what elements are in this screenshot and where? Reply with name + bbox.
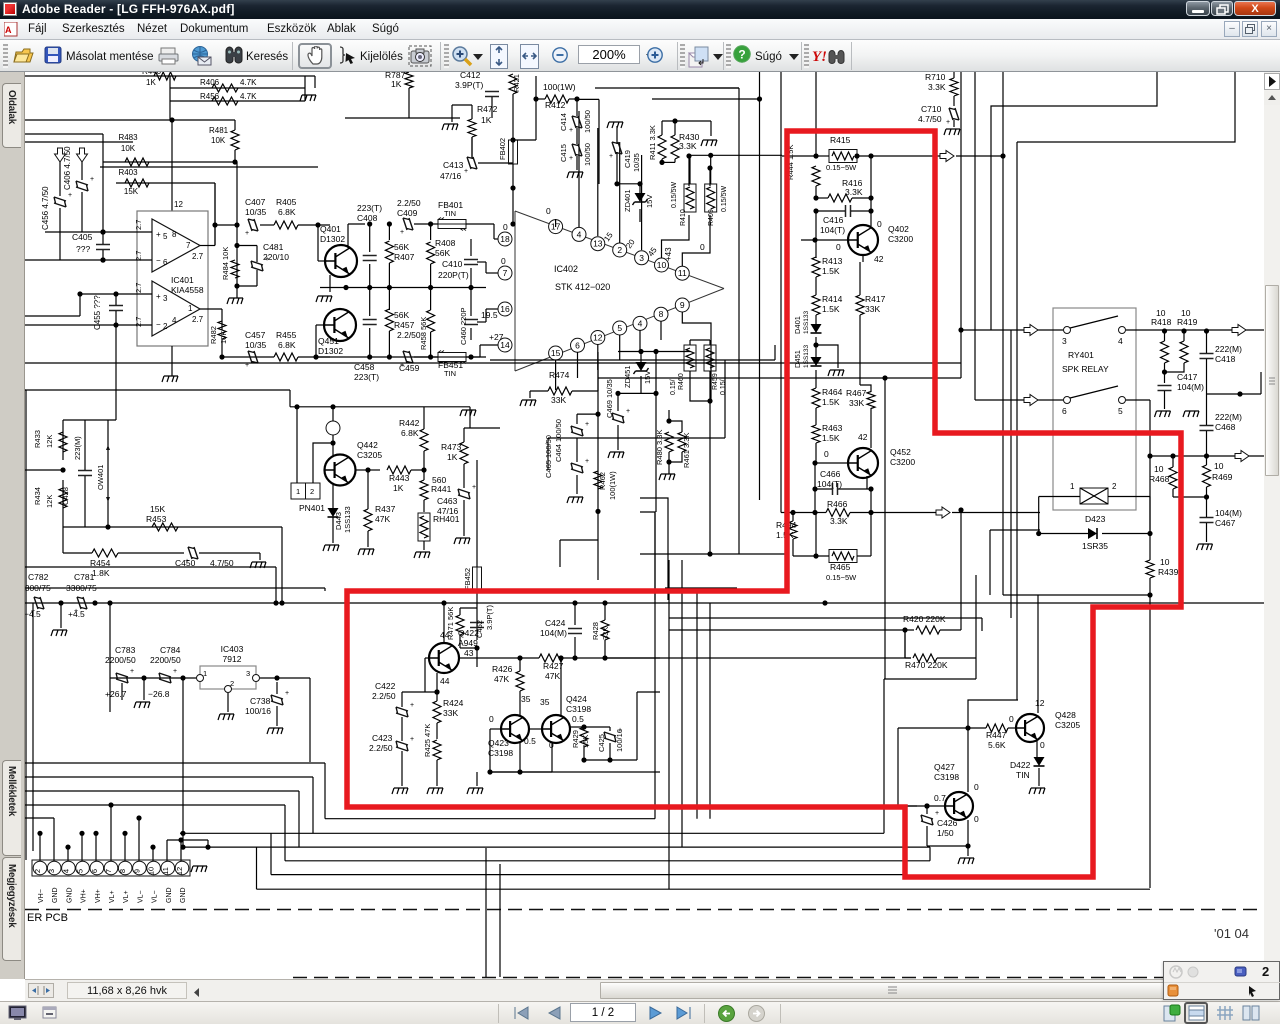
svg-text:42: 42 bbox=[874, 254, 884, 264]
wire Q427 base bbox=[898, 805, 944, 807]
svg-text:R413: R413 bbox=[822, 256, 843, 266]
svg-text:R428: R428 bbox=[591, 622, 600, 640]
svg-text:R453: R453 bbox=[146, 514, 167, 524]
resistor R407 bbox=[388, 224, 390, 240]
wire Q424 collector bbox=[560, 658, 562, 715]
svg-text:R425 47K: R425 47K bbox=[423, 724, 432, 757]
capacitor C463 bbox=[458, 489, 470, 499]
wire long mid horizontals bbox=[25, 362, 961, 364]
vertical scrollbar bbox=[1264, 72, 1280, 979]
svg-text:19.5: 19.5 bbox=[481, 310, 498, 320]
resistor R458 bbox=[430, 290, 432, 310]
resistor R417 bbox=[856, 295, 864, 315]
wire R468-R469 join bbox=[1172, 489, 1174, 497]
svg-text:56K: 56K bbox=[394, 310, 409, 320]
svg-text:R484 10K: R484 10K bbox=[221, 247, 230, 280]
wire bbox=[275, 567, 277, 603]
svg-text:+27: +27 bbox=[489, 332, 504, 342]
capacitor C782 bbox=[34, 597, 44, 609]
svg-text:104(M): 104(M) bbox=[1177, 382, 1204, 392]
svg-text:3: 3 bbox=[1062, 336, 1067, 346]
resistor R454 bbox=[92, 549, 118, 557]
svg-text:0.15−5W: 0.15−5W bbox=[826, 163, 857, 172]
svg-text:5: 5 bbox=[163, 232, 168, 241]
wire PN401-2 bbox=[313, 443, 333, 483]
svg-text:R434: R434 bbox=[33, 487, 42, 505]
dashed line bottom bbox=[293, 977, 1264, 979]
wire Q423 collector bbox=[519, 700, 521, 715]
svg-text:2.2/50: 2.2/50 bbox=[369, 743, 393, 753]
resistor R413 bbox=[812, 257, 820, 277]
svg-text:12K: 12K bbox=[45, 495, 54, 508]
svg-text:C710: C710 bbox=[921, 104, 942, 114]
resistor R469 bbox=[1203, 465, 1211, 487]
svg-text:R447: R447 bbox=[986, 730, 1007, 740]
svg-text:C782: C782 bbox=[28, 572, 49, 582]
ground C783 bbox=[134, 702, 150, 708]
svg-text:4.7K: 4.7K bbox=[240, 78, 257, 87]
svg-text:R460: R460 bbox=[678, 373, 685, 390]
svg-text:33K: 33K bbox=[865, 304, 880, 314]
svg-text:2.7: 2.7 bbox=[134, 220, 143, 230]
svg-text:0: 0 bbox=[700, 242, 705, 252]
resistor R408 bbox=[430, 224, 432, 240]
IC402 pin circles left bbox=[498, 232, 512, 246]
svg-text:0: 0 bbox=[1009, 714, 1014, 724]
transistor Q451 bbox=[324, 309, 356, 341]
ground IC403 pin2 bbox=[218, 714, 234, 720]
wire long vertical 739 bbox=[738, 88, 740, 554]
svg-text:1: 1 bbox=[188, 304, 193, 313]
svg-text:1SS133: 1SS133 bbox=[803, 310, 810, 334]
wire Q452 base bbox=[815, 462, 847, 464]
svg-text:R424: R424 bbox=[443, 698, 464, 708]
svg-text:C450: C450 bbox=[175, 558, 196, 568]
ground C467 bbox=[1197, 544, 1213, 550]
svg-text:3.3K: 3.3K bbox=[679, 141, 697, 151]
svg-text:C783: C783 bbox=[115, 645, 136, 655]
svg-text:2: 2 bbox=[617, 245, 622, 255]
svg-text:C428: C428 bbox=[61, 487, 70, 505]
svg-text:0.15/5W: 0.15/5W bbox=[671, 182, 678, 208]
svg-text:3.3K: 3.3K bbox=[928, 82, 946, 92]
svg-text:7: 7 bbox=[186, 241, 191, 250]
diode D422 bbox=[1036, 741, 1038, 758]
svg-text:R420 220K: R420 220K bbox=[903, 614, 946, 624]
svg-text:C413: C413 bbox=[443, 160, 464, 170]
toolbar bbox=[0, 40, 1280, 72]
status bar bbox=[0, 1001, 1280, 1024]
wire corner 1157 bbox=[991, 72, 1157, 330]
svg-text:C418: C418 bbox=[1215, 354, 1236, 364]
wire R447 left down bbox=[897, 728, 899, 806]
wire y567 bbox=[25, 566, 276, 568]
svg-text:+: + bbox=[569, 155, 573, 162]
wire vertical 781 bbox=[780, 72, 782, 513]
svg-text:FB402: FB402 bbox=[498, 138, 507, 160]
svg-text:C412: C412 bbox=[460, 72, 481, 80]
wire Q428 collector bbox=[1037, 595, 1039, 713]
wire relay 4 out bbox=[1126, 329, 1280, 331]
svg-text:1: 1 bbox=[203, 669, 207, 678]
svg-text:1/50: 1/50 bbox=[937, 828, 954, 838]
wire Q424 base bbox=[530, 728, 542, 730]
wire D423 rail bbox=[990, 529, 1040, 531]
svg-text:3.3K: 3.3K bbox=[830, 516, 848, 526]
svg-text:0: 0 bbox=[489, 714, 494, 724]
svg-text:0: 0 bbox=[546, 206, 551, 216]
capacitor C450 bbox=[188, 547, 198, 559]
ferrite FB452 bbox=[473, 567, 482, 593]
wire pin7 bbox=[485, 262, 487, 273]
ferrite FB451 bbox=[438, 353, 466, 362]
svg-text:R481: R481 bbox=[209, 126, 229, 135]
wire bbox=[815, 211, 817, 258]
svg-text:7912: 7912 bbox=[223, 654, 242, 664]
wire vertical drops below dashed bbox=[485, 848, 487, 977]
wire R444-R416 bbox=[815, 186, 817, 198]
svg-text:R462: R462 bbox=[598, 472, 607, 490]
svg-text:43: 43 bbox=[464, 648, 474, 658]
ground R474 bbox=[520, 400, 536, 406]
svg-text:13: 13 bbox=[593, 239, 603, 249]
wire down to R453 bbox=[105, 524, 110, 529]
svg-text:0: 0 bbox=[501, 256, 506, 266]
resistor R406 bbox=[212, 84, 238, 92]
resistor R484 bbox=[231, 260, 239, 278]
svg-text:R440: R440 bbox=[142, 72, 162, 76]
svg-text:C410: C410 bbox=[442, 259, 463, 269]
svg-text:+: + bbox=[173, 668, 177, 675]
resistor R470 bbox=[913, 654, 937, 662]
svg-text:9: 9 bbox=[132, 869, 141, 873]
ground connector bbox=[191, 866, 207, 872]
transistor Q423 bbox=[501, 715, 529, 743]
wire Q422 top bbox=[443, 603, 445, 643]
ground B bbox=[1183, 411, 1199, 417]
svg-text:15V: 15V bbox=[645, 195, 654, 208]
ground C417 bbox=[1155, 411, 1171, 417]
svg-text:C3205: C3205 bbox=[357, 450, 382, 460]
svg-text:2: 2 bbox=[1112, 482, 1117, 491]
svg-text:R710: R710 bbox=[925, 72, 946, 82]
svg-text:222(M): 222(M) bbox=[1215, 412, 1242, 422]
svg-text:4: 4 bbox=[1118, 336, 1123, 346]
svg-text:220/10: 220/10 bbox=[263, 252, 289, 262]
svg-text:C414: C414 bbox=[559, 113, 568, 131]
capacitor C464 bbox=[577, 413, 598, 415]
transistor Q452 bbox=[848, 448, 878, 478]
svg-text:3.3K: 3.3K bbox=[845, 187, 863, 197]
resistor R465 box bbox=[829, 550, 857, 563]
svg-text:47K: 47K bbox=[545, 671, 560, 681]
svg-text:R410: R410 bbox=[680, 209, 687, 226]
svg-text:C481: C481 bbox=[263, 242, 284, 252]
svg-text:6: 6 bbox=[163, 258, 168, 267]
wire stub left bbox=[640, 512, 655, 600]
svg-text:2.7: 2.7 bbox=[192, 252, 204, 261]
svg-text:R419: R419 bbox=[1177, 317, 1198, 327]
wire C419-ZD row bbox=[617, 183, 640, 185]
svg-text:C3198: C3198 bbox=[488, 748, 513, 758]
svg-text:Q423: Q423 bbox=[488, 738, 509, 748]
svg-text:2: 2 bbox=[230, 679, 234, 688]
svg-text:6: 6 bbox=[575, 340, 580, 350]
wires from top pins up bbox=[555, 219, 557, 227]
svg-text:16: 16 bbox=[500, 304, 510, 314]
transistor Q442 bbox=[325, 455, 356, 486]
svg-text:TIN: TIN bbox=[444, 369, 456, 378]
svg-text:+43: +43 bbox=[664, 247, 673, 261]
wire Q401 collector bbox=[347, 224, 349, 248]
wire into relay 3 bbox=[961, 329, 1063, 331]
svg-text:12: 12 bbox=[1035, 698, 1045, 708]
resistor R466 bbox=[826, 509, 850, 517]
svg-text:3: 3 bbox=[639, 253, 644, 263]
svg-text:1: 1 bbox=[296, 487, 300, 496]
capacitor C469 bbox=[618, 392, 656, 394]
lamp symbol bbox=[326, 421, 340, 435]
svg-text:ER PCB: ER PCB bbox=[27, 912, 68, 924]
red highlight marker loop bbox=[347, 131, 1181, 877]
wire Q423 base bbox=[490, 728, 502, 730]
wire Q422 base bbox=[425, 657, 430, 659]
svg-text:C466: C466 bbox=[820, 469, 841, 479]
wire FB452 top bbox=[476, 460, 478, 567]
svg-text:R418: R418 bbox=[1151, 317, 1172, 327]
svg-text:12: 12 bbox=[174, 200, 183, 209]
svg-text:C462: C462 bbox=[475, 620, 484, 638]
resistor RH401 bbox=[418, 513, 430, 541]
transistor Q422 bbox=[429, 643, 459, 673]
resistor R480 bbox=[665, 432, 673, 452]
svg-text:R473: R473 bbox=[441, 442, 462, 452]
R484/C481 bracket bbox=[236, 246, 238, 286]
svg-text:Q424: Q424 bbox=[566, 694, 587, 704]
svg-text:VL+: VL+ bbox=[123, 890, 130, 903]
wire FB452 bottom bbox=[476, 593, 478, 640]
svg-text:47K: 47K bbox=[375, 514, 390, 524]
resistor R420 bbox=[916, 626, 940, 634]
svg-text:C424: C424 bbox=[545, 618, 566, 628]
svg-text:2: 2 bbox=[163, 322, 168, 331]
resistor R482 bbox=[218, 321, 226, 339]
svg-text:R406: R406 bbox=[200, 78, 220, 87]
svg-text:Q402: Q402 bbox=[888, 224, 909, 234]
svg-text:C738: C738 bbox=[250, 696, 271, 706]
wire long vertical 816 bbox=[815, 72, 817, 156]
wire bbox=[332, 435, 334, 456]
svg-text:R469: R469 bbox=[1212, 472, 1233, 482]
resistor R414 bbox=[812, 295, 820, 315]
svg-text:VL−: VL− bbox=[152, 890, 159, 903]
svg-text:R409: R409 bbox=[708, 209, 715, 226]
wire into relay 6 bbox=[975, 399, 1063, 401]
wire pin12 chain bbox=[597, 352, 599, 580]
svg-text:1.5K: 1.5K bbox=[822, 304, 840, 314]
capacitor C418 bbox=[1200, 354, 1214, 359]
wire top-left bus bbox=[25, 75, 315, 77]
svg-text:ZD451: ZD451 bbox=[623, 365, 632, 388]
svg-text:4: 4 bbox=[638, 318, 643, 328]
wire from stage to right bbox=[595, 87, 739, 89]
svg-text:C3200: C3200 bbox=[888, 234, 913, 244]
ground D422 bbox=[1029, 788, 1045, 794]
svg-text:0.5: 0.5 bbox=[524, 736, 536, 746]
svg-text:1K: 1K bbox=[391, 79, 402, 89]
relay contact 3-4 bbox=[1064, 327, 1071, 334]
connector CN row bbox=[32, 860, 190, 876]
resistor R471 bbox=[456, 615, 464, 635]
svg-text:?: ? bbox=[738, 48, 745, 62]
window title bar bbox=[0, 0, 1280, 19]
svg-text:SPK RELAY: SPK RELAY bbox=[1062, 364, 1109, 374]
capacitor C428 bbox=[78, 471, 92, 476]
svg-text:5: 5 bbox=[76, 869, 85, 873]
svg-text:42: 42 bbox=[858, 432, 868, 442]
wire C782 rail bbox=[25, 602, 437, 604]
resistor R494 bbox=[789, 521, 797, 539]
svg-text:0: 0 bbox=[1040, 740, 1045, 750]
wire vertical 1011 bbox=[1010, 330, 1012, 618]
wire Q427 collector/emitter bbox=[967, 728, 969, 792]
wire y588 left bbox=[25, 587, 325, 589]
svg-text:GND: GND bbox=[180, 887, 187, 903]
wire vertical 961 bbox=[960, 72, 962, 330]
svg-text:5: 5 bbox=[617, 323, 622, 333]
svg-text:C460 220P: C460 220P bbox=[459, 307, 468, 345]
wire R410 rail bbox=[688, 156, 690, 186]
resistor R457 bbox=[388, 290, 390, 310]
svg-text:R439: R439 bbox=[1158, 567, 1179, 577]
capacitor C468 bbox=[1200, 426, 1214, 431]
ground R425 bbox=[427, 788, 443, 794]
wire staircase right-bottom bbox=[669, 805, 917, 807]
svg-text:2.2/50: 2.2/50 bbox=[372, 691, 396, 701]
svg-text:IC402: IC402 bbox=[554, 264, 578, 274]
ferrite FB401 bbox=[438, 220, 466, 229]
svg-text:12K: 12K bbox=[45, 435, 54, 448]
capacitor C781 bbox=[77, 597, 87, 609]
svg-text:GND: GND bbox=[52, 887, 59, 903]
svg-text:223(T): 223(T) bbox=[354, 372, 379, 382]
dashed separator line bbox=[25, 909, 1264, 911]
wire Q442 base bbox=[355, 469, 368, 471]
capacitor C410 bbox=[470, 239, 472, 256]
transistor Q401 bbox=[325, 245, 357, 277]
diode D401 bbox=[815, 315, 817, 325]
svg-text:C456 4.7/50: C456 4.7/50 bbox=[41, 186, 50, 230]
svg-text:47/16: 47/16 bbox=[440, 171, 462, 181]
wire vertical 1003 bbox=[1002, 72, 1004, 311]
capacitor C466 bbox=[833, 483, 838, 495]
resistor R483 bbox=[125, 158, 149, 166]
svg-text:3.9P(T): 3.9P(T) bbox=[455, 80, 484, 90]
svg-text:Q428: Q428 bbox=[1055, 710, 1076, 720]
svg-text:C3205: C3205 bbox=[1055, 720, 1080, 730]
resistor R441 bbox=[420, 480, 428, 500]
svg-text:+: + bbox=[609, 153, 613, 160]
svg-text:R474: R474 bbox=[549, 370, 570, 380]
resistor R442 bbox=[420, 429, 428, 451]
wire left mid bbox=[25, 469, 63, 471]
capacitor C465 bbox=[571, 463, 583, 473]
capacitor C425 bbox=[604, 732, 616, 742]
svg-text:1: 1 bbox=[1070, 482, 1075, 491]
ground R430 bbox=[701, 140, 717, 146]
svg-text:1K: 1K bbox=[481, 115, 492, 125]
ground Q427 bbox=[958, 858, 974, 864]
resistor R426 bbox=[516, 671, 524, 691]
resistor R463 bbox=[812, 425, 820, 443]
svg-text:C409: C409 bbox=[397, 208, 418, 218]
wire Q422 emitter bbox=[436, 673, 438, 701]
svg-text:223(M): 223(M) bbox=[73, 436, 82, 460]
resistor R433 bbox=[59, 432, 67, 452]
svg-text:R465: R465 bbox=[830, 562, 851, 572]
wire horiz y88 bbox=[640, 87, 739, 89]
svg-text:C408: C408 bbox=[357, 213, 378, 223]
svg-text:R441: R441 bbox=[431, 484, 452, 494]
svg-text:OW401: OW401 bbox=[96, 465, 105, 490]
svg-text:+: + bbox=[472, 484, 476, 491]
svg-text:0.15−5W: 0.15−5W bbox=[826, 573, 857, 582]
wire Q402 collector bbox=[870, 156, 872, 226]
svg-text:D443: D443 bbox=[334, 512, 343, 530]
resistor R455 bbox=[274, 353, 298, 361]
svg-text:C423: C423 bbox=[372, 733, 393, 743]
resistor R474 bbox=[548, 387, 572, 395]
wire top rail Q442 bbox=[290, 406, 470, 408]
svg-text:+: + bbox=[626, 408, 630, 415]
wire bus lines staircase bbox=[25, 762, 325, 764]
ground D443 bbox=[323, 545, 339, 551]
wire zd451 top bbox=[618, 351, 690, 353]
relay contact 6-5 bbox=[1064, 397, 1071, 404]
wire bus y287 bbox=[320, 287, 486, 289]
svg-text:R482: R482 bbox=[209, 326, 218, 344]
svg-text:6.8K: 6.8K bbox=[278, 340, 296, 350]
ground Q401 bbox=[329, 275, 331, 292]
svg-text:TIN: TIN bbox=[444, 209, 456, 218]
svg-text:15: 15 bbox=[551, 348, 561, 358]
resistor R461 bbox=[678, 432, 686, 452]
ground C738 bbox=[267, 728, 283, 734]
IC402 pin circles bottom edge bbox=[549, 346, 563, 360]
transistor Q402 bbox=[848, 225, 878, 255]
svg-text:0: 0 bbox=[974, 782, 979, 792]
svg-text:C459: C459 bbox=[399, 363, 420, 373]
capacitor C424 bbox=[568, 629, 582, 634]
resistor R439 bbox=[1146, 560, 1154, 578]
wire IC403 bbox=[110, 677, 196, 679]
svg-text:12: 12 bbox=[593, 333, 603, 343]
svg-text:R471 56K: R471 56K bbox=[446, 607, 455, 640]
svg-text:D423: D423 bbox=[1085, 514, 1106, 524]
capacitor C467 bbox=[1200, 518, 1214, 523]
relay coil bbox=[1080, 488, 1108, 504]
ground top-left bbox=[300, 95, 316, 101]
resistor R427 bbox=[539, 654, 563, 662]
svg-text:10: 10 bbox=[1160, 557, 1170, 567]
svg-text:0: 0 bbox=[877, 219, 882, 229]
svg-text:4.7/50: 4.7/50 bbox=[918, 114, 942, 124]
svg-text:2: 2 bbox=[310, 487, 314, 496]
resistor R440 bbox=[154, 72, 176, 80]
svg-text:Q451: Q451 bbox=[318, 336, 339, 346]
resistor R437 bbox=[364, 509, 372, 531]
svg-text:D1302: D1302 bbox=[318, 346, 343, 356]
